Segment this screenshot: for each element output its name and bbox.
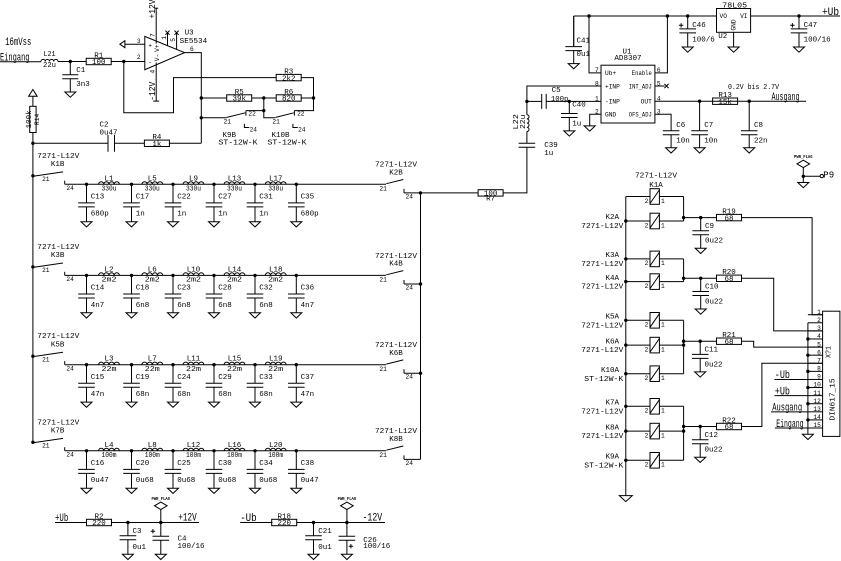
svg-text:39k: 39k bbox=[232, 96, 246, 104]
junction C30 bbox=[212, 449, 215, 452]
wire C5 to -INP pin 1 bbox=[546, 100, 601, 102]
svg-text:330u: 330u bbox=[145, 186, 160, 194]
svg-text:24: 24 bbox=[250, 126, 258, 133]
svg-text:68n: 68n bbox=[177, 391, 191, 399]
capacitor C19 bbox=[123, 365, 149, 408]
junction C18 bbox=[130, 274, 133, 277]
ground 78L05 bbox=[728, 47, 739, 52]
capacitor C47 bbox=[790, 16, 831, 52]
op-amp U3 SE5534 bbox=[137, 29, 208, 73]
svg-text:7271-L12V: 7271-L12V bbox=[581, 284, 624, 292]
wire R5-R6 bbox=[252, 97, 277, 99]
svg-text:7271-L12V: 7271-L12V bbox=[581, 261, 624, 269]
svg-text:24: 24 bbox=[406, 193, 414, 200]
junction C35 bbox=[295, 183, 298, 186]
pin 3 input arrow (non-inverting reference) bbox=[120, 41, 125, 48]
junction right bus row3 bbox=[419, 372, 422, 375]
svg-text:C38: C38 bbox=[301, 460, 315, 468]
svg-text:2: 2 bbox=[817, 317, 821, 324]
wire C2 to R4 bbox=[115, 142, 145, 144]
wire OFS_ADJ pin3 to C6 bbox=[655, 114, 671, 130]
svg-text:22m: 22m bbox=[145, 366, 161, 374]
relay coil K7A bbox=[645, 399, 665, 415]
capacitor C23 bbox=[165, 275, 192, 318]
inductor L6 bbox=[142, 266, 163, 284]
svg-text:7271-L12V: 7271-L12V bbox=[581, 322, 624, 330]
svg-text:1: 1 bbox=[661, 198, 665, 205]
svg-text:2m2: 2m2 bbox=[145, 277, 160, 285]
junction C14 bbox=[85, 274, 88, 277]
capacitor C6 bbox=[663, 122, 690, 153]
wire K3A coil right bbox=[659, 258, 683, 260]
svg-text:68: 68 bbox=[724, 215, 733, 223]
capacitor C25 bbox=[165, 451, 196, 494]
wire L22 to node D bbox=[526, 101, 528, 114]
svg-text:16mVss: 16mVss bbox=[5, 37, 31, 49]
svg-text:1n: 1n bbox=[259, 211, 268, 219]
svg-text:2k2: 2k2 bbox=[282, 75, 296, 83]
junction C15 bbox=[85, 363, 88, 366]
node B junction (inverting input) bbox=[122, 60, 125, 63]
junction pin7 rail bbox=[587, 14, 590, 17]
junction C25 bbox=[171, 449, 174, 452]
svg-text:-Ub: -Ub bbox=[240, 513, 257, 525]
svg-text:L5: L5 bbox=[148, 175, 158, 183]
relay coil K8A bbox=[645, 423, 665, 439]
svg-text:4n7: 4n7 bbox=[91, 302, 105, 310]
svg-text:2: 2 bbox=[645, 432, 649, 439]
junction C11 bbox=[699, 340, 702, 343]
connector X?1 DIN41617-15 bbox=[823, 311, 840, 436]
inductor L19 bbox=[265, 356, 286, 374]
svg-text:+12V: +12V bbox=[178, 513, 197, 525]
node D junction bbox=[525, 100, 528, 103]
relay contact K8B bbox=[375, 428, 418, 467]
relay contact K2B bbox=[375, 162, 418, 201]
resistor R14 bbox=[26, 96, 41, 143]
wire K8B terminal to right bus bbox=[404, 458, 421, 460]
svg-text:0u47: 0u47 bbox=[100, 129, 118, 137]
svg-text:68n: 68n bbox=[259, 391, 273, 399]
wire op-amp output pin6 bbox=[185, 53, 202, 144]
junction group2 tap bbox=[682, 277, 685, 280]
connector pin 14 bbox=[808, 414, 823, 421]
svg-text:Ausgang: Ausgang bbox=[772, 403, 802, 415]
capacitor C5 bbox=[542, 87, 569, 109]
wire K8A row bbox=[626, 430, 650, 432]
svg-text:21: 21 bbox=[42, 176, 50, 183]
svg-text:1: 1 bbox=[661, 408, 665, 415]
wire K10A coil right bbox=[659, 373, 683, 375]
svg-text:C37: C37 bbox=[301, 374, 315, 382]
inductor L3 bbox=[99, 356, 120, 374]
relay coil K4A bbox=[645, 274, 665, 290]
svg-text:L14: L14 bbox=[228, 266, 242, 274]
svg-text:7271-L12V: 7271-L12V bbox=[635, 173, 678, 181]
svg-text:100m: 100m bbox=[227, 452, 242, 460]
connector pin 11 bbox=[808, 390, 823, 397]
relay coil K9A bbox=[645, 453, 665, 469]
capacitor C24 bbox=[165, 365, 192, 408]
svg-text:12: 12 bbox=[813, 398, 821, 405]
relay coil K6A bbox=[645, 337, 665, 353]
junction pin 4 ground bbox=[806, 337, 809, 340]
inductor L1 bbox=[99, 175, 120, 193]
svg-text:13: 13 bbox=[813, 406, 821, 413]
label K10A bbox=[584, 367, 624, 384]
svg-text:C20: C20 bbox=[136, 460, 150, 468]
wire R19 to connector pin1 bbox=[742, 218, 823, 315]
wire R7 to C39 bbox=[503, 147, 527, 193]
svg-text:1n: 1n bbox=[136, 211, 145, 219]
wire K4A coil right bbox=[659, 281, 683, 283]
wire group1 tap to R19 bbox=[684, 217, 717, 219]
svg-text:24: 24 bbox=[66, 276, 74, 283]
svg-text:9: 9 bbox=[817, 374, 821, 381]
inductor L16 bbox=[224, 442, 245, 460]
svg-text:68: 68 bbox=[724, 276, 733, 284]
svg-text:21: 21 bbox=[42, 356, 50, 363]
svg-text:2: 2 bbox=[137, 54, 141, 61]
svg-text:Ausgang: Ausgang bbox=[772, 92, 800, 104]
capacitor C39 bbox=[519, 142, 558, 158]
svg-text:VO: VO bbox=[720, 13, 728, 20]
svg-text:-Ub: -Ub bbox=[775, 370, 790, 382]
wire K9A coil right bbox=[659, 459, 683, 461]
wire group2 tap to R20 bbox=[684, 277, 717, 279]
svg-text:10: 10 bbox=[813, 382, 821, 389]
svg-text:21: 21 bbox=[272, 118, 280, 125]
wire node R5/R6 down to K9B contact 22 bbox=[246, 98, 264, 111]
wire group3 vertical K5A/K6A/K10A bbox=[683, 320, 685, 373]
capacitor C18 bbox=[123, 275, 149, 318]
connector pin 6 bbox=[808, 349, 823, 356]
wire filter row 4 rail bbox=[65, 450, 386, 452]
wire K1A coil right bbox=[659, 196, 683, 198]
svg-text:24: 24 bbox=[66, 366, 74, 373]
wire R2 to +12V bbox=[112, 522, 200, 524]
junction C13 bbox=[85, 183, 88, 186]
svg-text:-: - bbox=[148, 59, 152, 66]
svg-text:7271-L12V: 7271-L12V bbox=[375, 253, 418, 261]
svg-text:L4: L4 bbox=[104, 442, 114, 450]
connector pin P9 bbox=[803, 171, 834, 181]
right vertical bus wire bbox=[420, 193, 422, 460]
svg-text:0u22: 0u22 bbox=[705, 238, 723, 246]
svg-text:5: 5 bbox=[817, 341, 821, 348]
junction C10 bbox=[699, 277, 702, 280]
svg-text:330u: 330u bbox=[186, 186, 201, 194]
svg-text:V-: V- bbox=[154, 54, 161, 61]
junction C27 bbox=[212, 183, 215, 186]
connector pin 2 bbox=[808, 317, 823, 324]
svg-text:47n: 47n bbox=[91, 391, 105, 399]
wire group2 vertical K3A/K4A bbox=[683, 259, 685, 282]
wire R21 to connector pin5 bbox=[742, 341, 823, 347]
svg-text:7271-L12V: 7271-L12V bbox=[37, 419, 80, 427]
junction C20 bbox=[130, 449, 133, 452]
svg-text:3n3: 3n3 bbox=[76, 81, 90, 89]
junction C2/R14/bus bbox=[31, 142, 34, 145]
junction C32 bbox=[253, 274, 256, 277]
svg-text:K9A: K9A bbox=[605, 454, 619, 462]
svg-text:2: 2 bbox=[645, 222, 649, 229]
global label Eingang (pin15) bbox=[775, 419, 808, 431]
svg-text:K2B: K2B bbox=[389, 170, 403, 178]
svg-text:C46: C46 bbox=[692, 22, 706, 30]
connector pin 5 bbox=[808, 341, 823, 348]
svg-text:K5B: K5B bbox=[51, 342, 65, 350]
svg-text:L17: L17 bbox=[269, 175, 283, 183]
svg-text:2m2: 2m2 bbox=[186, 277, 201, 285]
wire R20 to connector pin3 bbox=[742, 278, 823, 331]
resistor R20 bbox=[717, 269, 742, 284]
svg-text:L2: L2 bbox=[104, 266, 113, 274]
relay contact K1B bbox=[31, 153, 80, 192]
capacitor C1 bbox=[62, 62, 90, 98]
svg-text:L6: L6 bbox=[148, 266, 158, 274]
inductor L8 bbox=[142, 442, 163, 460]
wire R6 to node C bbox=[301, 97, 314, 99]
svg-text:+Ub: +Ub bbox=[822, 7, 839, 19]
svg-text:7271-L12V: 7271-L12V bbox=[375, 428, 418, 436]
capacitor C40 bbox=[561, 101, 586, 136]
junction C16 bbox=[85, 449, 88, 452]
svg-text:6n8: 6n8 bbox=[136, 302, 150, 310]
relay contact K5B bbox=[31, 333, 80, 372]
capacitor C4 bbox=[151, 523, 205, 560]
wire node D up to +INP pin 8 bbox=[527, 86, 601, 101]
svg-text:24: 24 bbox=[298, 126, 306, 133]
svg-text:1: 1 bbox=[661, 375, 665, 382]
wire bus to R7 bbox=[421, 192, 479, 194]
svg-text:DIN617_15: DIN617_15 bbox=[830, 378, 838, 421]
svg-text:C16: C16 bbox=[91, 460, 105, 468]
capacitor C3 bbox=[120, 523, 147, 560]
svg-text:10n: 10n bbox=[704, 137, 718, 145]
capacitor C16 bbox=[78, 451, 109, 494]
svg-text:C23: C23 bbox=[177, 285, 191, 293]
relay contact K7B bbox=[31, 419, 80, 458]
capacitor C2 bbox=[100, 122, 118, 152]
svg-text:100: 100 bbox=[92, 59, 106, 67]
inductor L7 bbox=[142, 356, 163, 374]
connector pin 7 bbox=[808, 357, 823, 364]
junction C21 bbox=[312, 521, 315, 524]
relay coil K5A bbox=[645, 313, 665, 329]
svg-text:C34: C34 bbox=[259, 460, 273, 468]
svg-text:K3A: K3A bbox=[605, 252, 619, 260]
wire C39 to L22 bbox=[526, 132, 528, 144]
svg-text:1u: 1u bbox=[544, 150, 553, 158]
svg-text:21: 21 bbox=[42, 267, 50, 274]
junction C29 bbox=[212, 363, 215, 366]
svg-text:0u22: 0u22 bbox=[705, 361, 723, 369]
wire bus node to C2 bbox=[33, 142, 108, 144]
svg-text:C32: C32 bbox=[259, 285, 273, 293]
inductor L2 bbox=[99, 266, 120, 284]
svg-text:C35: C35 bbox=[301, 194, 315, 202]
capacitor C20 bbox=[123, 451, 154, 494]
svg-text:1: 1 bbox=[817, 309, 821, 316]
svg-text:3: 3 bbox=[817, 325, 821, 332]
inductor L21 bbox=[41, 51, 58, 70]
svg-text:ST-12W-K: ST-12W-K bbox=[584, 376, 624, 384]
svg-text:L12: L12 bbox=[187, 442, 201, 450]
svg-text:2m2: 2m2 bbox=[102, 277, 117, 285]
inductor L14 bbox=[224, 266, 245, 284]
junction pin 8 ground bbox=[806, 370, 809, 373]
svg-text:C12: C12 bbox=[705, 432, 719, 440]
svg-text:C30: C30 bbox=[218, 460, 232, 468]
svg-text:0u47: 0u47 bbox=[301, 477, 319, 485]
svg-text:1: 1 bbox=[161, 36, 168, 40]
svg-text:7271-L12V: 7271-L12V bbox=[37, 244, 80, 252]
svg-text:5: 5 bbox=[170, 38, 177, 42]
ground P9 bbox=[798, 183, 809, 188]
svg-text:C36: C36 bbox=[301, 285, 315, 293]
junction pin 6 ground bbox=[806, 353, 809, 356]
wire K4A row bbox=[626, 281, 650, 283]
power -12V to pin 4 bbox=[148, 63, 159, 102]
wire R18 to -12V bbox=[296, 522, 385, 524]
wire GND pin2 bbox=[590, 114, 601, 126]
svg-text:24: 24 bbox=[66, 452, 74, 459]
svg-text:4: 4 bbox=[817, 333, 821, 340]
junction C3 bbox=[126, 521, 129, 524]
wire Enable pin6 to top rail bbox=[655, 16, 668, 73]
svg-text:6n8: 6n8 bbox=[177, 302, 191, 310]
svg-text:4n7: 4n7 bbox=[301, 302, 315, 310]
junction C22 bbox=[171, 183, 174, 186]
svg-text:U3: U3 bbox=[185, 29, 195, 37]
capacitor C37 bbox=[288, 365, 314, 408]
svg-text:7: 7 bbox=[817, 357, 821, 364]
wire K6B terminal to right bus bbox=[404, 372, 421, 374]
label K5A bbox=[581, 314, 624, 331]
inductor L13 bbox=[224, 175, 245, 193]
svg-text:6n8: 6n8 bbox=[259, 302, 273, 310]
inductor L11 bbox=[183, 356, 204, 374]
node A junction bbox=[69, 60, 72, 63]
regulator U2 78L05 bbox=[717, 2, 751, 41]
svg-text:2: 2 bbox=[645, 462, 649, 469]
svg-text:K6B: K6B bbox=[389, 350, 403, 358]
svg-text:Eingang: Eingang bbox=[0, 53, 30, 65]
svg-text:0.2V bis 2.7V: 0.2V bis 2.7V bbox=[728, 84, 779, 92]
svg-text:ST-12W-K: ST-12W-K bbox=[584, 462, 624, 470]
wire K10A row bbox=[626, 373, 650, 375]
resistor R19 bbox=[717, 209, 742, 224]
junction C23 bbox=[171, 274, 174, 277]
wire K2A row bbox=[626, 220, 650, 222]
svg-text:7271-L12V: 7271-L12V bbox=[37, 333, 80, 341]
svg-text:1: 1 bbox=[661, 283, 665, 290]
junction C26 bbox=[345, 521, 348, 524]
capacitor C15 bbox=[78, 365, 105, 408]
junction C36 bbox=[295, 274, 298, 277]
svg-text:0u47: 0u47 bbox=[91, 477, 109, 485]
resistor R18 bbox=[272, 513, 297, 528]
svg-text:21: 21 bbox=[379, 366, 387, 373]
resistor R21 bbox=[717, 332, 742, 347]
svg-text:C41: C41 bbox=[577, 38, 591, 46]
svg-text:0u68: 0u68 bbox=[259, 477, 277, 485]
svg-text:L10: L10 bbox=[187, 266, 201, 274]
wire node D to C5 bbox=[527, 100, 542, 102]
svg-text:100m: 100m bbox=[186, 452, 201, 460]
svg-text:L20: L20 bbox=[269, 442, 283, 450]
svg-text:22u: 22u bbox=[43, 62, 56, 70]
junction C47 bbox=[797, 14, 800, 17]
wire K10B contact 22 to node C bbox=[294, 98, 313, 111]
wire R1 to op-amp pin 2 bbox=[111, 61, 145, 63]
wire P9 to ground bbox=[802, 176, 804, 182]
wire L21 to node A bbox=[58, 61, 86, 63]
svg-text:0u1: 0u1 bbox=[133, 544, 147, 552]
wire filter row 3 rail bbox=[65, 364, 386, 366]
svg-text:C17: C17 bbox=[136, 194, 150, 202]
svg-text:100/16: 100/16 bbox=[804, 37, 832, 45]
svg-text:C28: C28 bbox=[218, 285, 232, 293]
label K7A bbox=[581, 400, 624, 417]
svg-text:7: 7 bbox=[150, 33, 157, 37]
junction C17 bbox=[130, 183, 133, 186]
svg-text:11: 11 bbox=[813, 390, 821, 397]
svg-text:L15: L15 bbox=[228, 356, 242, 364]
svg-text:100/6: 100/6 bbox=[692, 37, 715, 45]
connector pin 15 bbox=[808, 422, 823, 429]
wire R3 to node C bbox=[301, 78, 314, 98]
power flag -12V bbox=[338, 496, 357, 522]
label K3A bbox=[581, 252, 624, 269]
svg-text:24: 24 bbox=[406, 284, 414, 291]
resistor R13 bbox=[713, 92, 738, 107]
resistor R4 bbox=[144, 134, 169, 149]
relay coil K10A bbox=[645, 366, 665, 382]
svg-text:100m: 100m bbox=[102, 452, 117, 460]
junction C38 bbox=[295, 449, 298, 452]
inductor L4 bbox=[99, 442, 120, 460]
svg-text:X?1: X?1 bbox=[825, 346, 833, 358]
svg-text:L13: L13 bbox=[228, 175, 242, 183]
svg-text:C15: C15 bbox=[91, 374, 105, 382]
svg-text:21: 21 bbox=[379, 452, 387, 459]
svg-text:1n: 1n bbox=[177, 211, 186, 219]
wire Ub+ pin7 to top rail bbox=[589, 16, 601, 73]
svg-text:VI: VI bbox=[740, 13, 748, 20]
capacitor C14 bbox=[78, 275, 105, 318]
svg-text:100m: 100m bbox=[268, 452, 283, 460]
wire group3 tap to R21 bbox=[684, 340, 717, 342]
wire K4B terminal to right bus bbox=[404, 283, 421, 285]
svg-text:68n: 68n bbox=[136, 391, 150, 399]
svg-text:+Ub: +Ub bbox=[775, 386, 790, 398]
svg-text:+INP: +INP bbox=[605, 83, 620, 90]
svg-text:K3B: K3B bbox=[51, 252, 65, 260]
svg-text:47n: 47n bbox=[301, 391, 315, 399]
junction output/R5 bbox=[200, 96, 203, 99]
wire group1 vertical K1A/K2A bbox=[683, 197, 685, 222]
svg-text:P9: P9 bbox=[823, 171, 834, 181]
capacitor C8 bbox=[741, 101, 768, 153]
wire K2A coil right bbox=[659, 220, 683, 222]
svg-text:+: + bbox=[148, 42, 152, 49]
svg-text:24: 24 bbox=[406, 460, 414, 467]
svg-text:14: 14 bbox=[813, 414, 821, 421]
pin 5 no-connect bbox=[170, 31, 179, 50]
junction C19 bbox=[130, 363, 133, 366]
